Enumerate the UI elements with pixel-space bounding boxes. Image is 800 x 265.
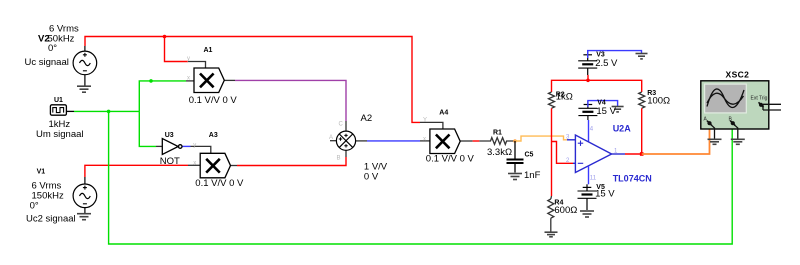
svg-text:11: 11: [590, 176, 597, 182]
resistor R2 1kOhm: [549, 92, 555, 108]
ground below scope A: [708, 139, 722, 144]
battery V3 2.5V: [578, 51, 597, 75]
wire: black stub into A4 y pin: [420, 122, 443, 129]
svg-text:A: A: [329, 135, 333, 141]
scope ext trig terminal: [759, 103, 763, 107]
wire: blue V4 to op-amp pin 4: [588, 120, 590, 142]
svg-text:C: C: [339, 122, 344, 128]
svg-text:0.1 V/V 0 V: 0.1 V/V 0 V: [195, 178, 244, 189]
multiplier A1: [194, 68, 224, 93]
wire: A4 output to R1: [460, 140, 473, 142]
svg-text:U3: U3: [165, 132, 174, 139]
oscilloscope XSC2: [701, 81, 781, 129]
node: junction at V3 bottom: [586, 79, 590, 83]
wire: black stub A1 output: [224, 79, 235, 81]
ground below V2: [77, 86, 91, 92]
wire: red V3 bottom stub: [587, 75, 589, 80]
wire: red top rail from V2 source to A4 drop: [85, 37, 420, 123]
svg-text:x: x: [193, 161, 196, 167]
resistor R1 3.3kOhm: [479, 138, 515, 145]
battery V5 15V: [578, 184, 597, 210]
wire: light orange from R1 to op-amp + input: [515, 136, 567, 141]
scope terminal B: [731, 121, 735, 125]
wire: purple from A1 output to A2 top: [235, 80, 346, 121]
svg-text:0°: 0°: [48, 43, 57, 54]
svg-text:15 V: 15 V: [595, 189, 615, 200]
wire: blue from V4 top to ground: [588, 101, 618, 107]
ground below V1: [77, 214, 91, 220]
wire: black to A3 y pin: [191, 146, 211, 153]
multiplier A3: [200, 153, 230, 178]
svg-text:x: x: [423, 137, 426, 143]
svg-text:A3: A3: [209, 132, 218, 139]
svg-text:y: y: [193, 143, 196, 149]
svg-text:0 V: 0 V: [364, 172, 379, 183]
node: junction at op-amp output: [640, 152, 644, 156]
NOT gate U3: [162, 139, 182, 155]
wire: black stub A4 x pin: [420, 140, 430, 142]
svg-text:15 V: 15 V: [596, 106, 616, 117]
node: junction on top rail: [163, 35, 167, 39]
wire: black stub A2 top pin: [345, 121, 347, 131]
svg-text:Ext Trig: Ext Trig: [751, 96, 768, 102]
wire: red from R3 bottom to output node: [641, 108, 643, 154]
AC source V2 (top left, 250kHz): [73, 46, 97, 86]
wire: red segment before R1: [473, 140, 480, 142]
svg-text:Uc signaal: Uc signaal: [25, 57, 69, 68]
wire: blue from V3 top to ground: [588, 51, 642, 58]
ground below V5: [580, 211, 594, 217]
svg-text:R1: R1: [493, 130, 502, 137]
wire: black stub into A1 x pin: [186, 80, 194, 82]
op-amp U2A TL074CN: [567, 135, 625, 173]
wire: red from A3 output to A2 bottom: [237, 157, 346, 166]
svg-text:100Ω: 100Ω: [647, 96, 670, 107]
ground right of V4: [612, 107, 624, 112]
svg-text:NOT: NOT: [160, 156, 180, 167]
summer A2: [336, 131, 355, 150]
ground below R4: [545, 232, 558, 237]
svg-text:y: y: [187, 56, 190, 62]
wire: red from V1 source to A3 x input: [85, 165, 188, 177]
wire: blue from A2 output to A4 x input: [367, 140, 420, 142]
wire: green down to U3 NOT input: [139, 111, 156, 146]
wire: black stub A2 left pin (unconnected): [330, 140, 336, 142]
svg-text:XSC2: XSC2: [726, 70, 750, 80]
svg-text:Uc2 signaal: Uc2 signaal: [26, 214, 76, 225]
svg-text:x: x: [187, 76, 190, 82]
svg-text:TL074CN: TL074CN: [613, 174, 652, 184]
svg-text:600Ω: 600Ω: [554, 205, 577, 216]
wire: orange from output node to scope A: [642, 128, 710, 154]
svg-text:0°: 0°: [30, 201, 39, 212]
svg-text:Um signaal: Um signaal: [36, 129, 84, 140]
clock source U1: [50, 105, 74, 115]
node: orange junction at R1/C5: [513, 139, 517, 143]
svg-text:U1: U1: [54, 97, 63, 104]
battery V4 15V: [578, 101, 597, 120]
svg-text:1nF: 1nF: [524, 170, 541, 181]
wire: black stub into A1 y pin: [188, 62, 206, 69]
svg-text:0.1 V/V 0 V: 0.1 V/V 0 V: [426, 154, 475, 165]
wire: red branch from top rail to A1 y input: [165, 37, 189, 62]
wire: black stub into A3 x pin: [188, 164, 200, 166]
ground below C5: [508, 174, 522, 180]
wire: scope A to ground: [712, 126, 715, 139]
svg-text:C5: C5: [525, 152, 534, 159]
ground below scope B: [731, 139, 745, 144]
wire: black stub into U3 input: [156, 145, 162, 147]
wire: black stub A2 bottom pin: [345, 150, 347, 157]
svg-text:B: B: [337, 156, 341, 162]
svg-text:Y: Y: [423, 118, 427, 124]
capacitor C5 1nF: [507, 141, 524, 173]
ground right of V3: [636, 54, 648, 59]
resistor R3 100Ohm: [639, 92, 645, 108]
scope terminal A: [707, 121, 711, 125]
resistor R4 600Ohm: [548, 196, 554, 232]
wire: green long run to scope channel B: [109, 111, 733, 244]
multiplier A4: [430, 129, 460, 154]
wire: green from U1 output: [74, 110, 139, 112]
wire: red rail above op-amp (R2 to R3): [552, 80, 642, 92]
node: green junction on U1 line: [107, 110, 111, 114]
svg-text:1kΩ: 1kΩ: [556, 92, 573, 103]
svg-text:2.5 V: 2.5 V: [595, 58, 618, 69]
wire: green up to A1 x input: [139, 81, 186, 112]
svg-text:A4: A4: [439, 110, 448, 117]
wire: blue from U3 output to A3 y input: [182, 145, 191, 147]
svg-text:V1: V1: [37, 169, 46, 176]
svg-text:A2: A2: [361, 113, 373, 124]
wire: black stub A2 output: [356, 140, 367, 142]
svg-text:A1: A1: [204, 47, 213, 54]
label: V2 source text: [25, 24, 79, 69]
wire: red op-amp output segment: [625, 153, 642, 155]
wire: red feedback branch to op-amp - input: [552, 142, 574, 164]
svg-text:0.1 V/V 0 V: 0.1 V/V 0 V: [189, 95, 238, 106]
node: green junction near A1 x: [149, 79, 153, 83]
wire: black stub A3 output: [231, 165, 237, 167]
AC source V1 (bottom left, 150kHz): [73, 177, 97, 213]
wire: blue op-amp pin 11 to V5: [588, 166, 590, 184]
wire: red from R2 bottom down to R4: [551, 108, 553, 196]
wire: scope B to ground: [735, 126, 738, 139]
svg-text:U2A: U2A: [613, 124, 632, 134]
svg-text:3.3kΩ: 3.3kΩ: [487, 147, 512, 158]
